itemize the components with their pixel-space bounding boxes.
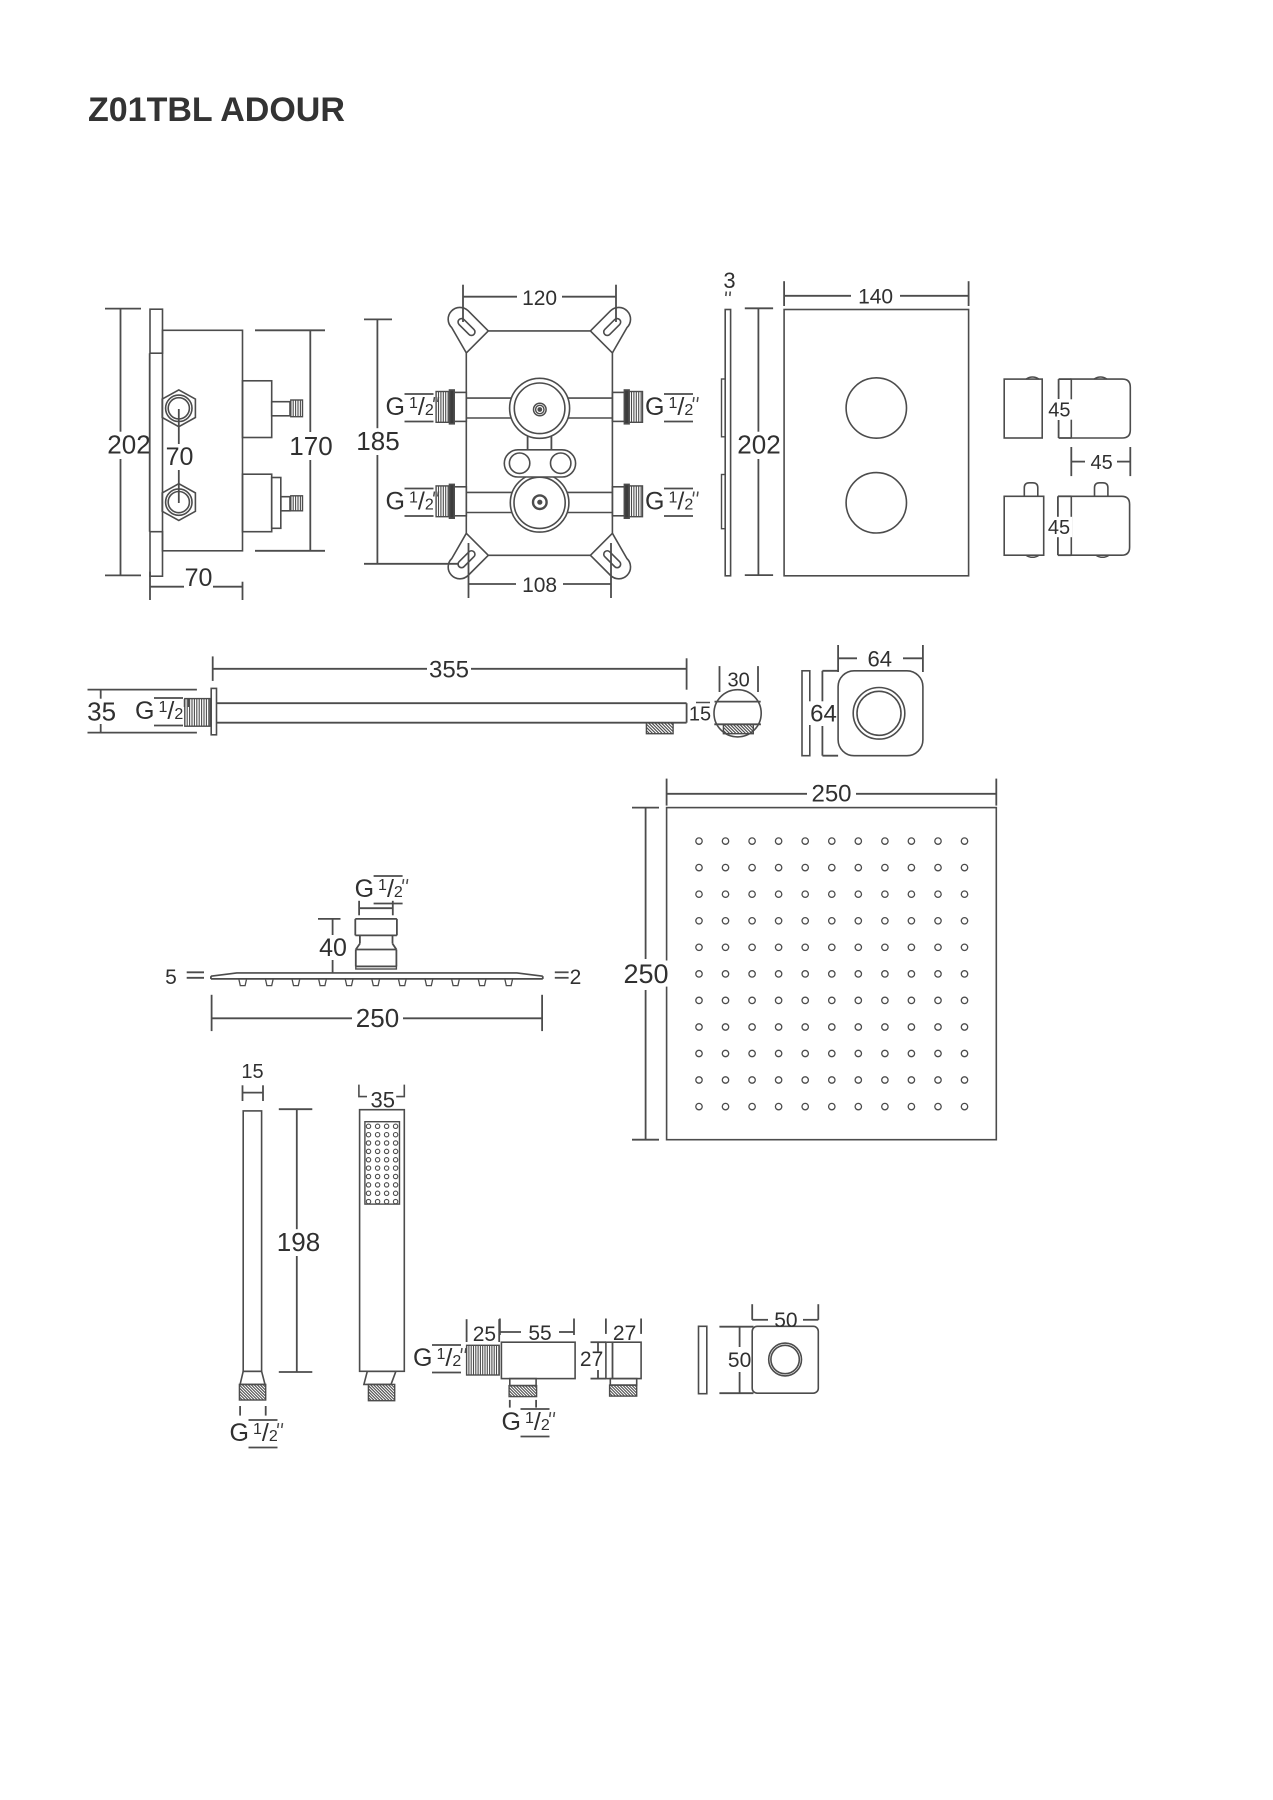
- svg-text:35: 35: [87, 697, 116, 727]
- svg-text:45: 45: [1090, 452, 1112, 474]
- svg-text:202: 202: [737, 430, 780, 460]
- svg-text:64: 64: [868, 647, 892, 672]
- svg-text:45: 45: [1048, 517, 1070, 539]
- svg-text:40: 40: [319, 934, 347, 962]
- svg-text:27: 27: [613, 1322, 636, 1345]
- svg-text:202: 202: [107, 430, 150, 460]
- svg-text:27: 27: [580, 1348, 603, 1371]
- svg-text:35: 35: [370, 1088, 394, 1113]
- svg-text:70: 70: [166, 443, 194, 471]
- svg-text:250: 250: [811, 781, 851, 808]
- svg-text:15: 15: [241, 1061, 263, 1083]
- svg-text:70: 70: [185, 564, 213, 592]
- svg-text:185: 185: [356, 426, 399, 456]
- svg-text:5: 5: [165, 966, 177, 989]
- svg-text:140: 140: [858, 286, 893, 309]
- svg-text:Z01TBL ADOUR: Z01TBL ADOUR: [88, 91, 345, 129]
- svg-text:250: 250: [623, 959, 668, 989]
- svg-text:30: 30: [727, 670, 749, 692]
- svg-text:45: 45: [1048, 400, 1070, 422]
- svg-text:198: 198: [277, 1227, 320, 1257]
- svg-text:50: 50: [728, 1349, 751, 1372]
- svg-text:15: 15: [689, 704, 711, 726]
- svg-text:108: 108: [522, 574, 557, 597]
- svg-text:50: 50: [774, 1309, 797, 1332]
- svg-text:250: 250: [356, 1003, 399, 1033]
- svg-text:120: 120: [522, 287, 557, 310]
- svg-text:2: 2: [570, 966, 582, 989]
- svg-text:25: 25: [473, 1323, 496, 1346]
- svg-text:355: 355: [429, 657, 469, 684]
- svg-text:170: 170: [289, 431, 332, 461]
- svg-text:64: 64: [810, 701, 837, 728]
- svg-text:3: 3: [723, 268, 735, 293]
